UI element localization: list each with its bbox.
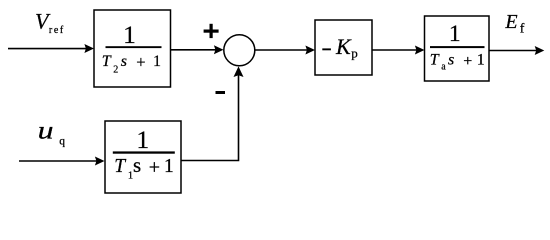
svg-text:u: u (38, 117, 54, 145)
svg-text:T: T (114, 156, 126, 177)
svg-text:1: 1 (123, 20, 136, 49)
svg-text:1: 1 (477, 51, 485, 68)
svg-text:K: K (335, 34, 352, 59)
svg-text:E: E (504, 11, 517, 33)
svg-text:+: + (149, 157, 160, 179)
svg-text:q: q (59, 136, 65, 148)
svg-text:a: a (441, 62, 446, 73)
svg-text:2: 2 (113, 64, 118, 75)
svg-text:s: s (133, 153, 141, 177)
svg-text:1: 1 (164, 156, 174, 177)
svg-text:+: + (463, 53, 472, 70)
svg-text:1: 1 (449, 21, 461, 47)
svg-text:ref: ref (49, 25, 65, 36)
svg-text:T: T (430, 51, 440, 68)
svg-text:s: s (121, 53, 127, 70)
svg-text:1: 1 (153, 53, 161, 70)
svg-text:p: p (351, 46, 358, 61)
svg-text:T: T (102, 53, 112, 70)
svg-text:f: f (520, 22, 525, 37)
svg-text:+: + (136, 52, 145, 71)
svg-text:1: 1 (136, 125, 149, 154)
svg-text:s: s (448, 51, 454, 68)
